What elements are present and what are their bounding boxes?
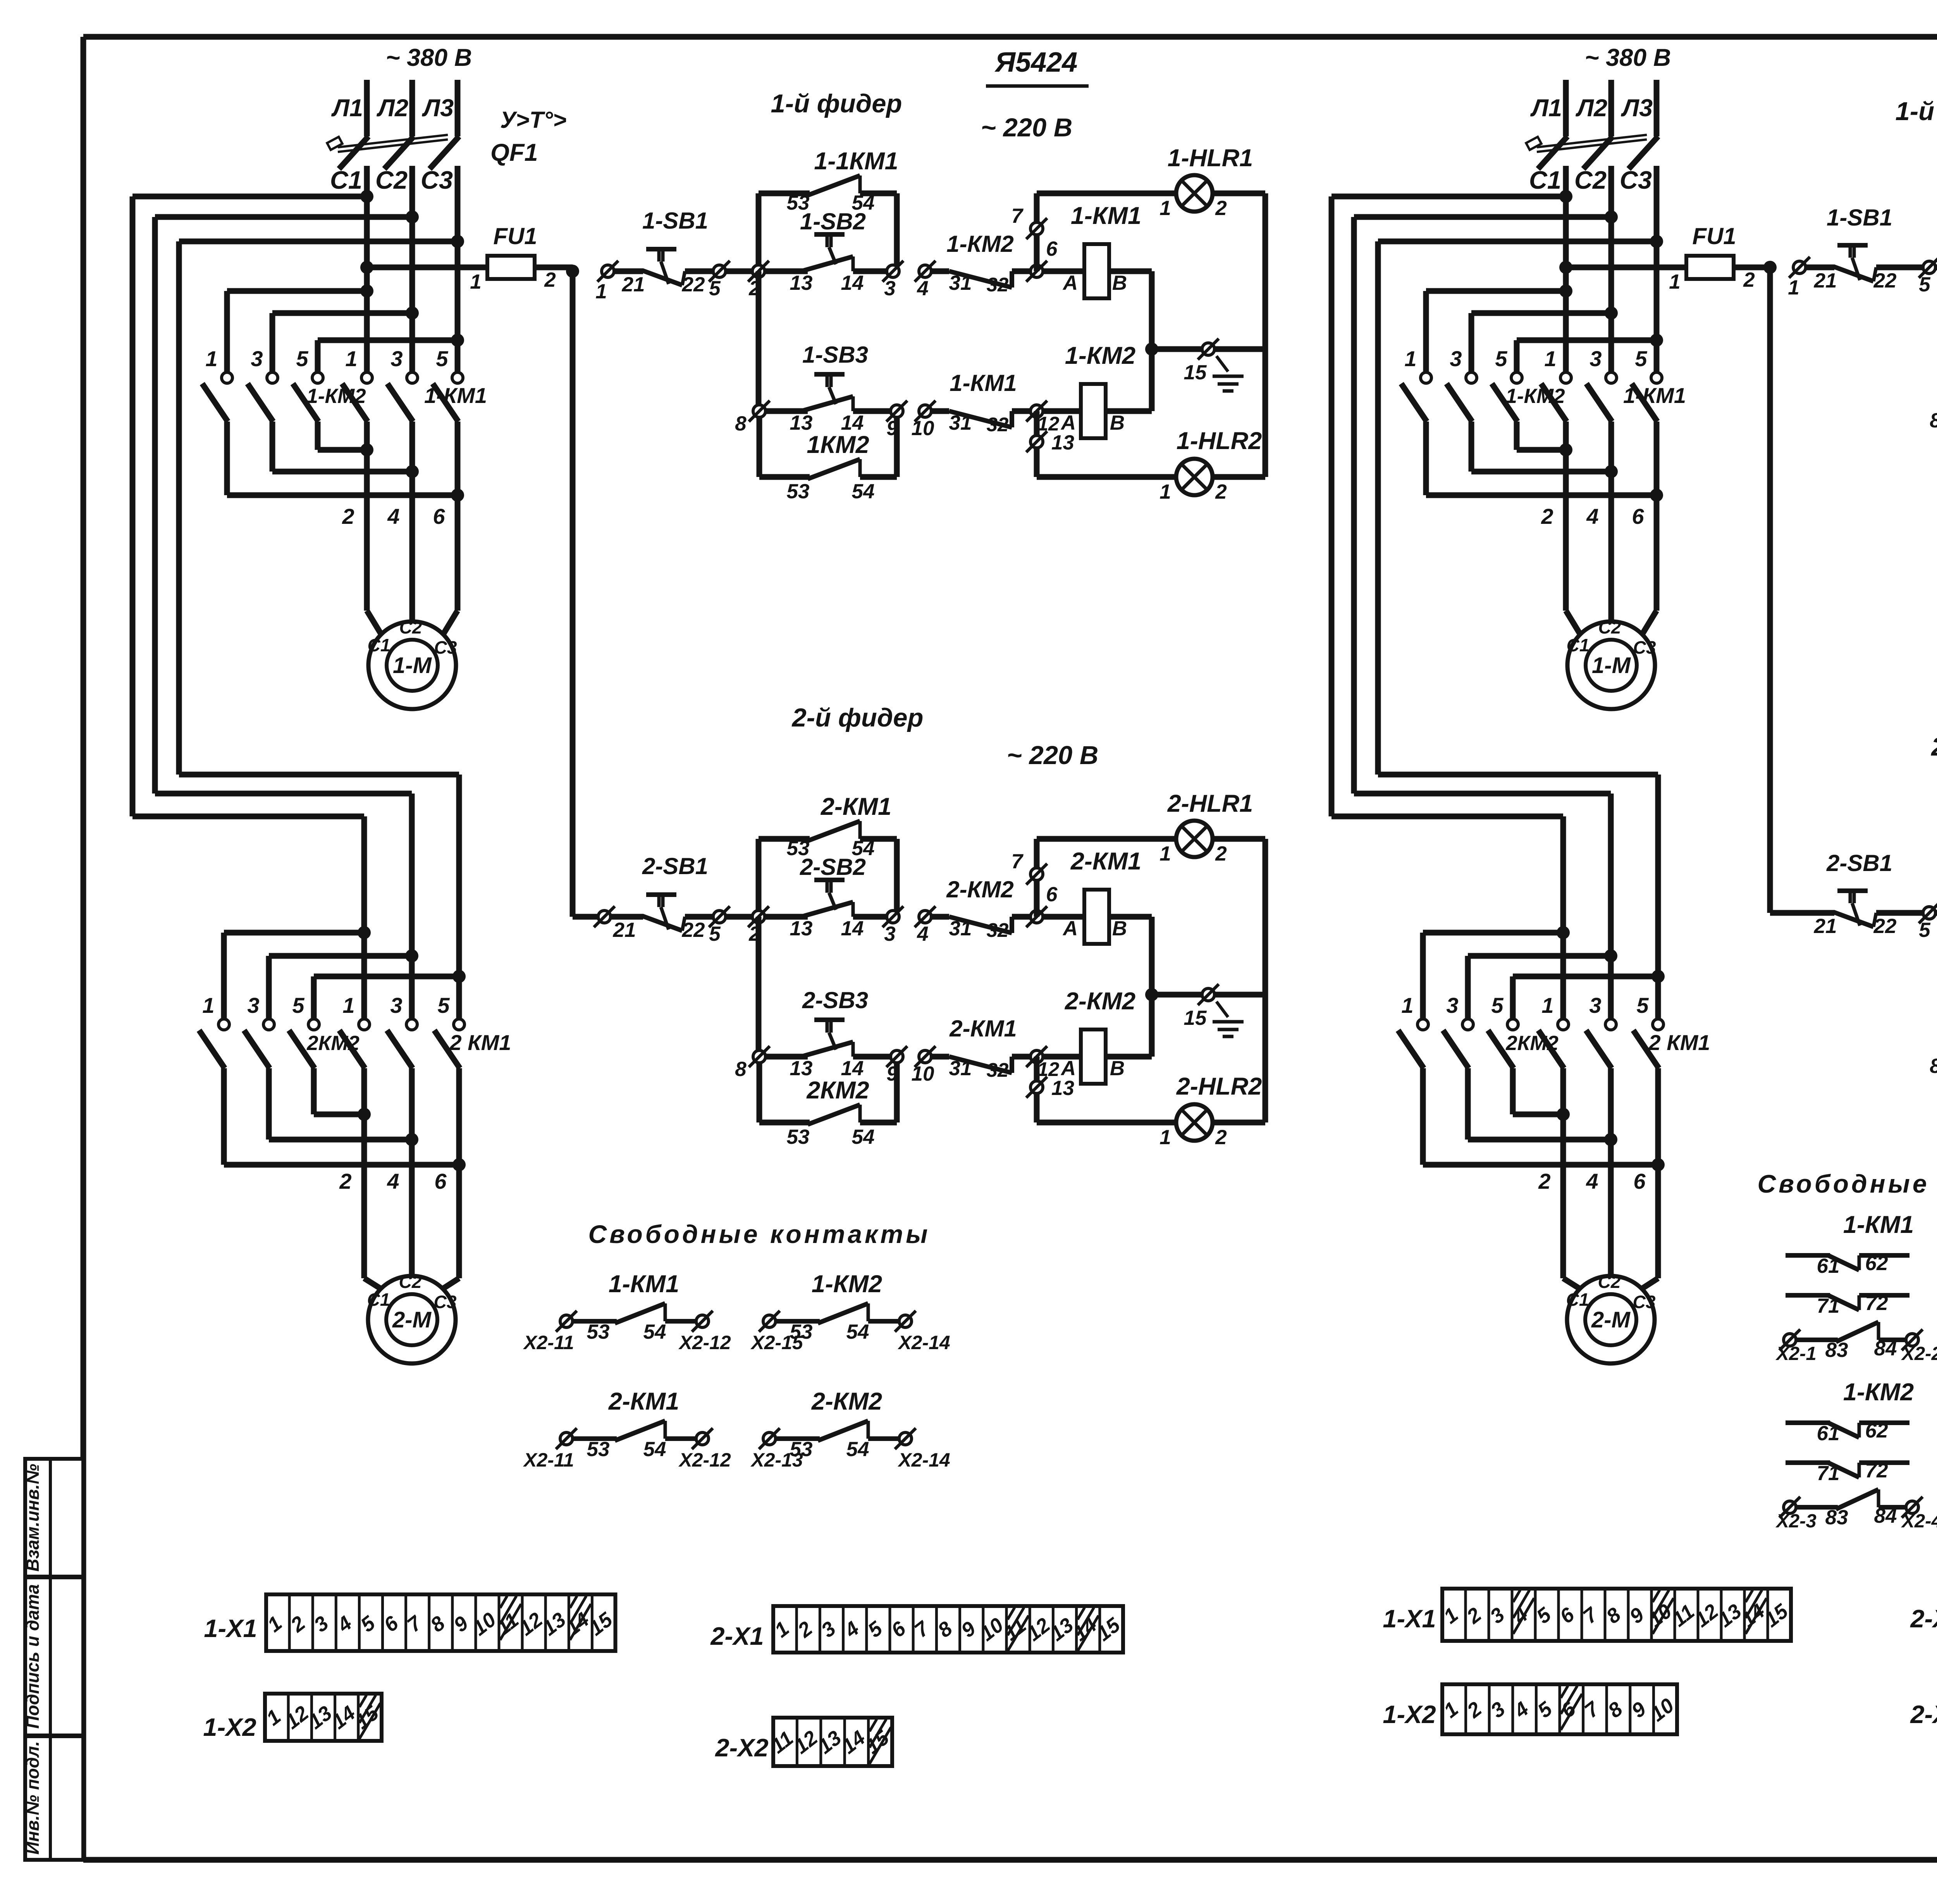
svg-text:1-КМ1: 1-КМ1: [1623, 383, 1686, 408]
svg-text:1: 1: [1401, 993, 1413, 1017]
svg-text:2-КМ2: 2-КМ2: [946, 876, 1014, 902]
svg-text:Л2: Л2: [377, 95, 408, 122]
svg-text:2КМ2: 2КМ2: [806, 1077, 869, 1104]
svg-text:X2-11: X2-11: [523, 1449, 574, 1471]
svg-text:2: 2: [1215, 480, 1227, 503]
svg-text:Л3: Л3: [422, 95, 454, 122]
svg-text:22: 22: [1873, 269, 1897, 292]
svg-text:1-й фидер: 1-й фидер: [771, 89, 902, 118]
svg-text:54: 54: [846, 1320, 869, 1343]
svg-text:X2-14: X2-14: [897, 1449, 950, 1471]
svg-text:Я5424: Я5424: [994, 47, 1078, 78]
svg-text:3: 3: [884, 277, 895, 300]
svg-text:2-КМ1: 2-КМ1: [608, 1388, 679, 1415]
svg-text:5: 5: [1491, 993, 1503, 1017]
svg-text:1-КМ1: 1-КМ1: [1843, 1211, 1914, 1238]
svg-text:1-КМ1: 1-КМ1: [424, 383, 487, 408]
svg-text:1-КМ2: 1-КМ2: [1505, 385, 1565, 408]
svg-text:1: 1: [1788, 276, 1799, 299]
svg-text:32: 32: [987, 919, 1009, 941]
svg-text:1: 1: [470, 270, 481, 293]
svg-text:~ 380 В: ~ 380 В: [386, 44, 472, 71]
svg-text:5: 5: [1635, 346, 1647, 371]
svg-text:3: 3: [1590, 346, 1602, 371]
svg-text:X2-1: X2-1: [1775, 1343, 1817, 1364]
svg-text:84: 84: [1874, 1337, 1897, 1360]
svg-text:С3: С3: [1633, 1292, 1656, 1312]
svg-text:15: 15: [1184, 1007, 1207, 1029]
svg-text:53: 53: [587, 1320, 610, 1343]
svg-text:5: 5: [1919, 273, 1931, 296]
svg-text:2 КМ1: 2 КМ1: [449, 1030, 511, 1055]
svg-text:В: В: [1110, 1057, 1125, 1080]
svg-text:С3: С3: [1633, 637, 1656, 658]
svg-text:4: 4: [387, 1169, 399, 1193]
svg-text:2-ой фидер: 2-ой фидер: [1930, 732, 1937, 761]
svg-text:1-SB1: 1-SB1: [642, 208, 708, 234]
svg-text:2: 2: [339, 1169, 351, 1193]
svg-text:72: 72: [1865, 1292, 1888, 1315]
svg-text:С2: С2: [1598, 1272, 1621, 1292]
svg-text:10: 10: [912, 417, 934, 440]
svg-text:62: 62: [1865, 1252, 1888, 1275]
svg-text:С1: С1: [367, 1289, 390, 1310]
svg-text:В: В: [1112, 272, 1127, 294]
svg-text:X2-15: X2-15: [750, 1332, 803, 1353]
svg-text:1: 1: [1669, 270, 1680, 293]
svg-text:5: 5: [1495, 346, 1507, 371]
svg-text:С3: С3: [434, 1292, 457, 1312]
svg-text:1-HLR2: 1-HLR2: [1177, 427, 1262, 454]
svg-text:61: 61: [1817, 1255, 1840, 1277]
svg-text:54: 54: [643, 1320, 666, 1343]
svg-text:13: 13: [790, 917, 813, 940]
svg-text:1-КМ2: 1-КМ2: [306, 385, 366, 408]
svg-text:2: 2: [1538, 1169, 1550, 1193]
svg-text:53: 53: [587, 1438, 610, 1461]
svg-text:1-М: 1-М: [1592, 653, 1631, 678]
svg-text:7: 7: [1012, 850, 1024, 873]
svg-text:21: 21: [1814, 269, 1837, 292]
svg-text:2-X2: 2-X2: [714, 1734, 768, 1762]
svg-text:6: 6: [1046, 883, 1058, 906]
svg-text:2КМ2: 2КМ2: [306, 1032, 360, 1055]
svg-text:5: 5: [436, 346, 448, 371]
svg-text:2-SB3: 2-SB3: [802, 987, 868, 1013]
svg-text:У>Т°>: У>Т°>: [500, 107, 566, 133]
svg-text:1: 1: [1541, 993, 1553, 1017]
svg-text:71: 71: [1817, 1295, 1840, 1317]
svg-text:3: 3: [1446, 993, 1458, 1017]
svg-text:Л1: Л1: [1530, 95, 1562, 122]
svg-text:6: 6: [1633, 1169, 1646, 1193]
svg-text:3: 3: [884, 923, 895, 945]
svg-text:53: 53: [787, 480, 810, 503]
svg-text:84: 84: [1874, 1505, 1897, 1527]
svg-text:32: 32: [987, 274, 1009, 296]
svg-text:54: 54: [852, 1126, 875, 1148]
svg-text:5: 5: [709, 277, 721, 300]
svg-text:4: 4: [1586, 1169, 1598, 1193]
svg-text:2КМ2: 2КМ2: [1505, 1032, 1559, 1055]
svg-text:14: 14: [841, 272, 864, 294]
svg-text:С1: С1: [1529, 166, 1561, 194]
svg-text:32: 32: [987, 413, 1009, 436]
svg-text:6: 6: [1632, 504, 1644, 529]
svg-text:2-М: 2-М: [1591, 1307, 1631, 1332]
svg-text:13: 13: [1051, 431, 1074, 454]
svg-text:С1: С1: [1566, 1289, 1589, 1310]
svg-text:1КМ2: 1КМ2: [807, 431, 869, 458]
svg-text:1: 1: [345, 346, 357, 371]
svg-text:62: 62: [1865, 1419, 1888, 1442]
svg-text:2-М: 2-М: [392, 1307, 432, 1332]
svg-text:54: 54: [852, 480, 875, 503]
svg-text:22: 22: [682, 919, 705, 942]
svg-text:X2-13: X2-13: [750, 1449, 803, 1471]
svg-text:53: 53: [787, 191, 810, 214]
svg-text:6: 6: [1046, 238, 1058, 260]
svg-text:3: 3: [247, 993, 259, 1017]
svg-text:С2: С2: [375, 166, 408, 194]
svg-text:X2-3: X2-3: [1775, 1511, 1817, 1532]
svg-text:21: 21: [1814, 915, 1837, 938]
svg-text:1: 1: [1404, 346, 1416, 371]
svg-text:С1: С1: [330, 166, 362, 194]
svg-text:13: 13: [1051, 1077, 1074, 1100]
svg-text:Подпись и дата: Подпись и дата: [22, 1584, 43, 1729]
svg-text:А: А: [1062, 272, 1078, 294]
svg-text:FU1: FU1: [1692, 223, 1736, 249]
svg-text:54: 54: [852, 191, 875, 214]
svg-text:1: 1: [1159, 197, 1171, 220]
svg-text:2: 2: [1215, 1126, 1227, 1149]
svg-text:5: 5: [1919, 919, 1931, 942]
svg-text:53: 53: [787, 1126, 810, 1148]
svg-text:2: 2: [342, 504, 354, 529]
svg-text:~ 380 В: ~ 380 В: [1585, 44, 1671, 71]
svg-text:1-КМ2: 1-КМ2: [812, 1270, 882, 1298]
svg-text:10: 10: [912, 1062, 934, 1085]
svg-text:2-й фидер: 2-й фидер: [791, 703, 924, 732]
svg-text:8: 8: [1930, 409, 1937, 432]
svg-text:1: 1: [202, 993, 214, 1017]
svg-text:1-КМ2: 1-КМ2: [1843, 1379, 1914, 1406]
svg-text:1: 1: [1159, 1126, 1171, 1149]
svg-text:X2-2: X2-2: [1901, 1343, 1937, 1364]
svg-text:X2-12: X2-12: [678, 1449, 731, 1471]
svg-text:3: 3: [1589, 993, 1601, 1017]
svg-text:54: 54: [852, 837, 875, 860]
svg-text:83: 83: [1825, 1506, 1848, 1529]
svg-text:22: 22: [1873, 915, 1897, 938]
svg-text:В: В: [1112, 917, 1127, 940]
svg-text:1-1КМ1: 1-1КМ1: [814, 148, 898, 175]
svg-text:1-X1: 1-X1: [204, 1614, 257, 1642]
svg-text:С3: С3: [434, 637, 457, 658]
svg-text:С2: С2: [399, 617, 422, 637]
svg-text:71: 71: [1817, 1462, 1840, 1485]
svg-text:4: 4: [917, 277, 928, 300]
svg-text:61: 61: [1817, 1422, 1840, 1445]
svg-text:1-КМ2: 1-КМ2: [1065, 342, 1135, 369]
svg-text:1-HLR1: 1-HLR1: [1168, 145, 1253, 172]
svg-text:7: 7: [1012, 205, 1024, 227]
svg-text:1-SB3: 1-SB3: [802, 342, 868, 368]
svg-text:С1: С1: [1567, 635, 1590, 655]
svg-text:2-X1: 2-X1: [1909, 1604, 1937, 1633]
svg-text:1: 1: [595, 280, 607, 303]
svg-text:1-КМ2: 1-КМ2: [946, 231, 1014, 257]
svg-text:1-М: 1-М: [393, 653, 432, 678]
svg-text:2: 2: [1215, 197, 1227, 220]
svg-text:8: 8: [735, 412, 747, 435]
svg-text:6: 6: [433, 504, 445, 529]
svg-text:1-й фидер: 1-й фидер: [1896, 97, 1937, 126]
svg-text:15: 15: [1184, 361, 1207, 384]
svg-text:С1: С1: [368, 635, 390, 655]
svg-text:X2-11: X2-11: [523, 1332, 574, 1353]
svg-text:~ 220 В: ~ 220 В: [1007, 741, 1099, 770]
svg-text:Взам.инв.№: Взам.инв.№: [22, 1464, 43, 1572]
svg-text:4: 4: [1586, 504, 1598, 529]
svg-text:2-КМ1: 2-КМ1: [949, 1016, 1017, 1042]
svg-text:Свободные контакты: Свободные контакты: [588, 1220, 931, 1248]
svg-text:FU1: FU1: [493, 223, 537, 249]
svg-text:54: 54: [846, 1438, 869, 1461]
svg-text:С3: С3: [1620, 166, 1652, 194]
svg-text:2: 2: [1743, 269, 1755, 291]
svg-text:14: 14: [841, 917, 864, 940]
svg-text:Инв.№ подл.: Инв.№ подл.: [22, 1741, 43, 1855]
svg-text:X2-4: X2-4: [1901, 1511, 1937, 1532]
svg-text:В: В: [1110, 411, 1125, 434]
svg-text:2-КМ2: 2-КМ2: [1065, 988, 1135, 1015]
svg-text:8: 8: [735, 1058, 747, 1081]
svg-text:1-SB1: 1-SB1: [1827, 205, 1892, 231]
svg-text:13: 13: [790, 272, 813, 294]
svg-text:2: 2: [1215, 842, 1227, 865]
svg-text:2-КМ1: 2-КМ1: [1070, 848, 1141, 875]
svg-text:32: 32: [987, 1059, 1009, 1081]
svg-text:1-КМ1: 1-КМ1: [609, 1270, 679, 1298]
svg-text:QF1: QF1: [490, 139, 538, 166]
svg-text:3: 3: [1450, 346, 1462, 371]
svg-text:Л1: Л1: [331, 95, 363, 122]
svg-text:53: 53: [787, 837, 810, 860]
svg-text:1: 1: [1159, 480, 1171, 503]
svg-text:2-КМ2: 2-КМ2: [811, 1388, 882, 1415]
svg-text:21: 21: [613, 919, 636, 942]
svg-text:72: 72: [1865, 1459, 1888, 1482]
svg-text:1: 1: [1544, 346, 1556, 371]
svg-text:2-SB1: 2-SB1: [642, 853, 708, 879]
svg-text:2-HLR2: 2-HLR2: [1176, 1073, 1262, 1100]
svg-text:5: 5: [1636, 993, 1649, 1017]
svg-text:X2-14: X2-14: [897, 1332, 950, 1353]
svg-text:5: 5: [437, 993, 450, 1017]
svg-text:1: 1: [1159, 842, 1171, 865]
svg-text:Л3: Л3: [1621, 95, 1653, 122]
svg-text:2: 2: [1541, 504, 1553, 529]
svg-text:3: 3: [390, 346, 403, 371]
svg-text:1-КМ1: 1-КМ1: [1071, 202, 1141, 229]
svg-text:1: 1: [342, 993, 354, 1017]
svg-text:5: 5: [292, 993, 304, 1017]
svg-text:1-КМ1: 1-КМ1: [950, 370, 1017, 396]
svg-text:3: 3: [251, 346, 263, 371]
svg-text:А: А: [1062, 917, 1078, 940]
svg-text:~ 220 В: ~ 220 В: [981, 113, 1073, 142]
svg-text:X2-12: X2-12: [678, 1332, 731, 1353]
svg-text:4: 4: [387, 504, 399, 529]
svg-text:1-X2: 1-X2: [1383, 1700, 1436, 1728]
svg-text:22: 22: [682, 273, 705, 296]
svg-text:83: 83: [1825, 1339, 1848, 1362]
svg-text:4: 4: [917, 923, 928, 945]
svg-text:1-X2: 1-X2: [203, 1713, 256, 1741]
svg-text:2-КМ1: 2-КМ1: [821, 793, 891, 820]
svg-text:С2: С2: [399, 1272, 422, 1292]
svg-text:6: 6: [434, 1169, 447, 1193]
svg-text:5: 5: [709, 923, 721, 945]
svg-text:2-SB1: 2-SB1: [1826, 850, 1892, 876]
svg-text:3: 3: [390, 993, 402, 1017]
svg-text:54: 54: [643, 1438, 666, 1461]
svg-text:2: 2: [544, 269, 556, 291]
svg-text:2-X1: 2-X1: [710, 1622, 764, 1650]
svg-text:С2: С2: [1574, 166, 1607, 194]
svg-text:1-X1: 1-X1: [1383, 1604, 1436, 1633]
svg-text:21: 21: [622, 273, 645, 296]
svg-text:8: 8: [1930, 1055, 1937, 1078]
svg-text:Л2: Л2: [1576, 95, 1607, 122]
svg-text:2 КМ1: 2 КМ1: [1648, 1030, 1710, 1055]
svg-text:2-HLR1: 2-HLR1: [1167, 790, 1253, 817]
svg-text:С2: С2: [1598, 617, 1621, 637]
svg-text:1: 1: [205, 346, 217, 371]
svg-text:5: 5: [296, 346, 308, 371]
svg-text:2-X2: 2-X2: [1909, 1700, 1937, 1728]
svg-text:Свободные контакты: Свободные контакты: [1758, 1169, 1937, 1198]
svg-text:С3: С3: [421, 166, 453, 194]
